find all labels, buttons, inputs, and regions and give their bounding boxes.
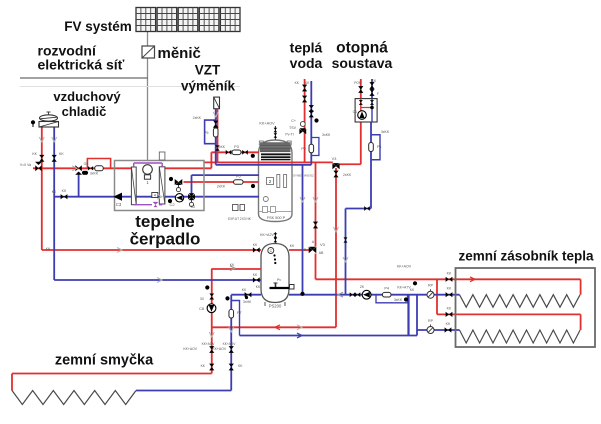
svg-text:P2: P2 [301,147,306,151]
svg-text:KK: KK [32,152,37,156]
svg-text:voda: voda [290,55,323,71]
svg-text:Pv-Tr: Pv-Tr [285,133,294,137]
svg-text:KK: KK [447,272,452,276]
svg-text:tepelne: tepelne [135,212,195,231]
svg-text:AB: AB [319,251,324,255]
svg-text:elektrická síť: elektrická síť [38,57,125,73]
svg-text:teplá: teplá [290,40,323,56]
svg-text:KK: KK [447,287,452,291]
svg-text:C8: C8 [199,307,204,311]
svg-text:P3: P3 [234,145,239,149]
svg-text:KK+AOV: KK+AOV [223,342,237,346]
svg-text:čerpadlo: čerpadlo [130,230,201,249]
svg-text:3xKK: 3xKK [381,130,390,134]
svg-text:KK: KK [446,322,451,326]
svg-text:C3: C3 [116,202,122,207]
svg-text:KK+A2V: KK+A2V [260,233,274,237]
svg-text:KK+AOV: KK+AOV [202,342,216,346]
svg-text:Va: Va [27,163,31,167]
svg-text:Pv: Pv [277,278,281,282]
svg-text:3xHK: 3xHK [243,300,252,304]
svg-text:C1: C1 [353,110,357,114]
svg-text:měnič: měnič [158,45,201,62]
svg-text:F: F [377,92,379,96]
svg-text:VZT: VZT [195,63,221,78]
svg-text:KK: KK [59,152,64,156]
svg-text:RP: RP [428,319,434,323]
svg-text:vzduchový: vzduchový [53,89,121,104]
svg-text:POM: POM [354,81,362,85]
svg-text:V3: V3 [332,157,337,161]
svg-text:zemní zásobník tepla: zemní zásobník tepla [458,249,594,264]
svg-text:RP: RP [428,284,434,288]
svg-text:P7: P7 [237,311,242,315]
svg-text:P6: P6 [236,175,241,179]
svg-text:SYNEK WG/S2: SYNEK WG/S2 [293,174,314,178]
svg-text:3xKK: 3xKK [394,298,403,302]
svg-text:P5: P5 [204,131,209,135]
svg-text:KK+AOV: KK+AOV [183,347,197,351]
svg-text:KK+AOV: KK+AOV [397,265,412,269]
svg-text:2xKK: 2xKK [217,185,226,189]
svg-text:soustava: soustava [332,55,393,71]
svg-text:EXP.UT 2X3 HK: EXP.UT 2X3 HK [228,217,252,221]
svg-text:4: 4 [154,193,156,197]
svg-text:TSV: TSV [289,126,297,130]
svg-text:KK: KK [62,189,67,193]
svg-text:2xKK: 2xKK [193,116,202,120]
svg-text:3X: 3X [200,297,205,301]
svg-text:2xKK: 2xKK [217,145,226,149]
svg-text:otopná: otopná [336,40,388,57]
svg-text:výměník: výměník [181,79,236,94]
svg-text:ZK: ZK [360,285,365,289]
svg-text:V3: V3 [320,242,326,247]
svg-text:FSK 500 P: FSK 500 P [267,216,286,220]
svg-text:C2: C2 [191,205,196,209]
svg-text:P4: P4 [384,287,389,291]
svg-text:3xKK: 3xKK [90,172,99,176]
svg-text:3xKK: 3xKK [322,133,331,137]
svg-text:FV systém: FV systém [64,19,132,34]
svg-text:KK: KK [447,307,452,311]
svg-text:KK+AOV: KK+AOV [259,122,275,126]
svg-text:KK+AOV: KK+AOV [212,347,226,351]
svg-text:chladič: chladič [62,104,107,119]
svg-text:C+: C+ [291,119,296,123]
svg-text:V=0: V=0 [20,163,26,167]
svg-text:zemní smyčka: zemní smyčka [55,353,154,369]
svg-text:2xKK: 2xKK [343,173,352,177]
svg-text:PS200: PS200 [269,304,282,309]
svg-text:OK: OK [84,162,90,166]
svg-text:P1: P1 [377,145,382,149]
